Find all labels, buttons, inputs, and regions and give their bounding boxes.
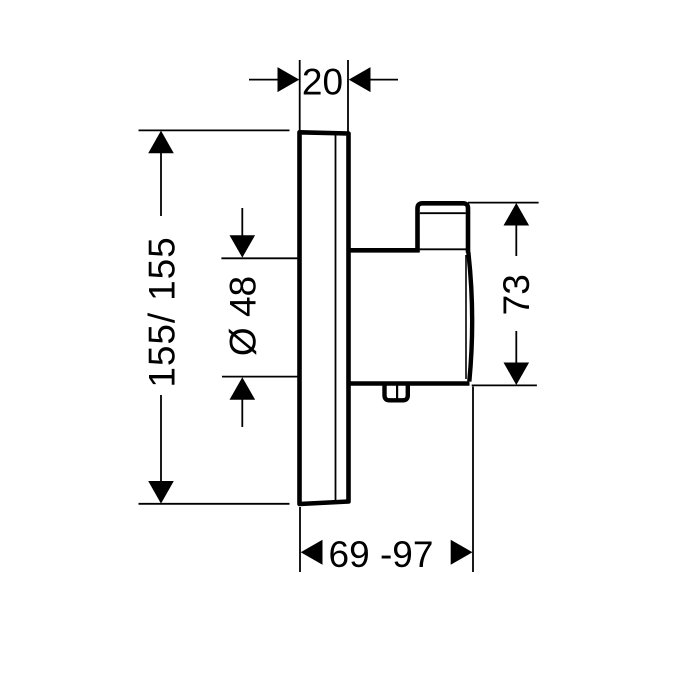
svg-text:69 -97: 69 -97 [329, 534, 434, 575]
svg-text:155/ 155: 155/ 155 [141, 236, 182, 387]
svg-text:Ø 48: Ø 48 [222, 276, 263, 356]
svg-text:20: 20 [302, 62, 343, 103]
svg-text:73: 73 [496, 274, 537, 315]
